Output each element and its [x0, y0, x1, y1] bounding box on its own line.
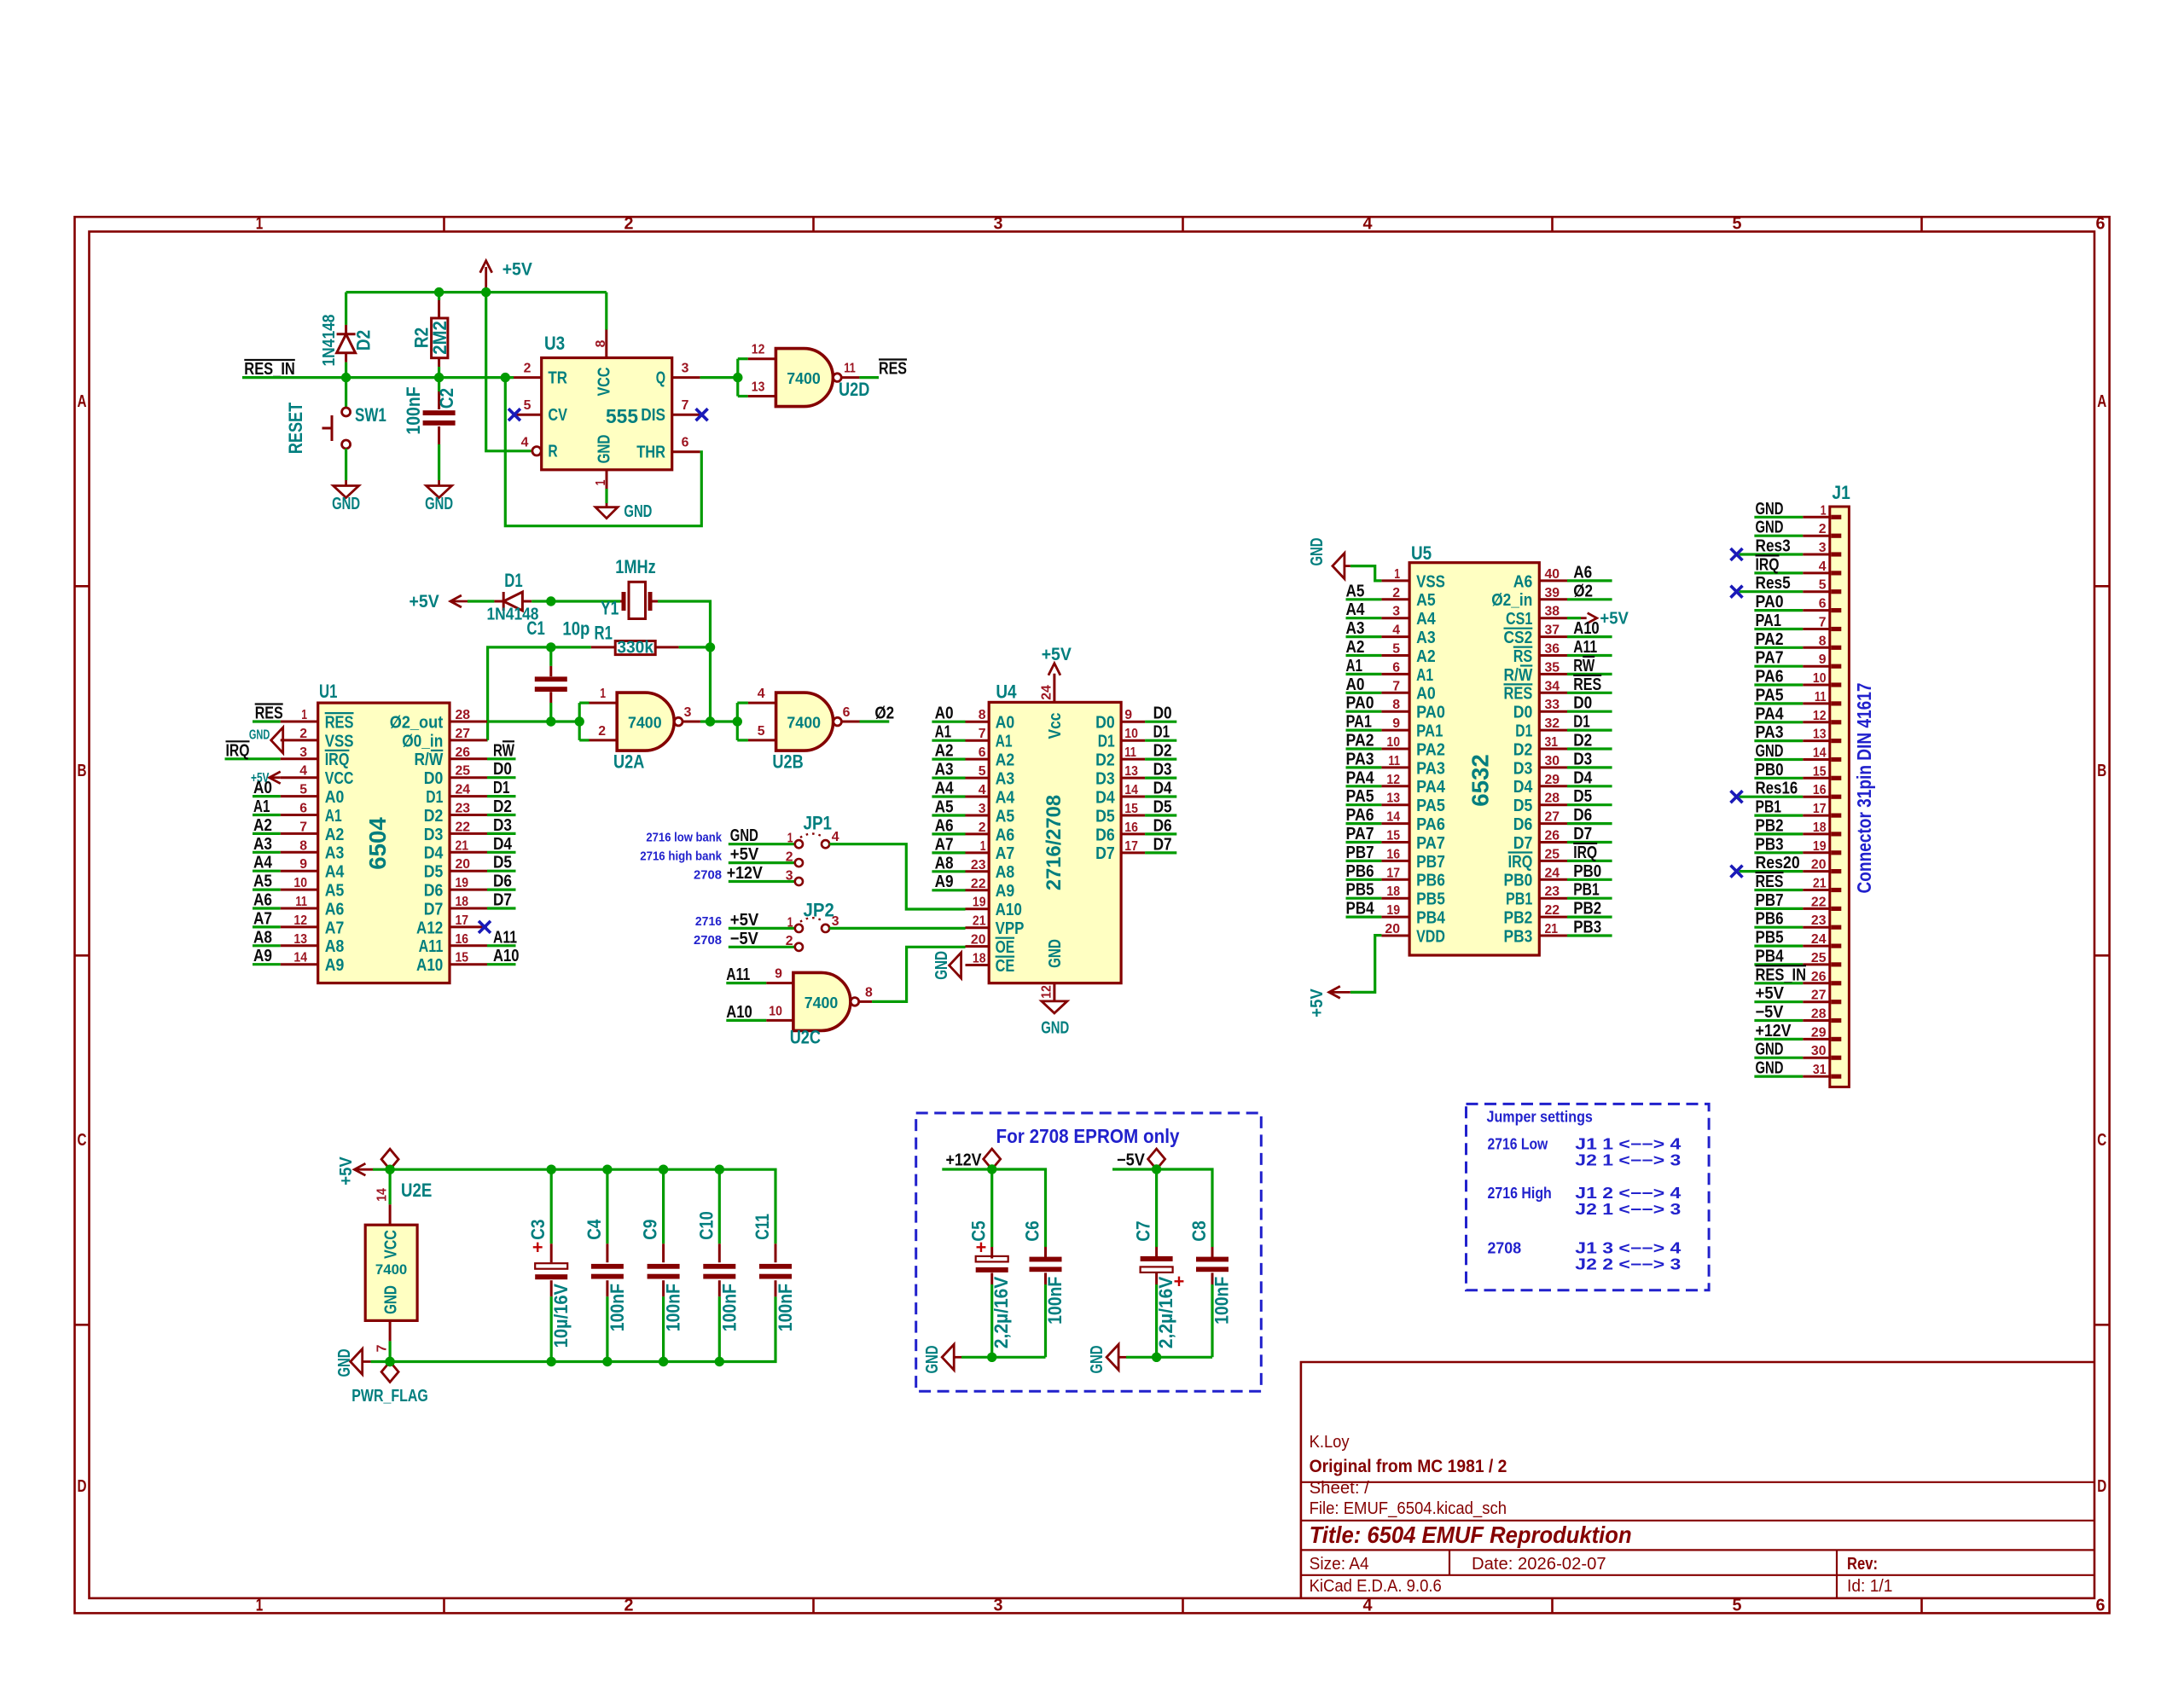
- U4 pin 23 A8: [966, 870, 990, 872]
- svg-text:PB5: PB5: [1416, 890, 1445, 909]
- wire J1 pin 23: [1754, 926, 1803, 929]
- svg-text:A3: A3: [325, 843, 345, 863]
- svg-text:14: 14: [293, 951, 307, 965]
- svg-text:A8: A8: [253, 928, 272, 947]
- svg-text:A5: A5: [325, 881, 345, 901]
- U5 pin 4 A3: [1381, 635, 1409, 638]
- svg-text:22: 22: [1811, 895, 1827, 909]
- svg-text:2716 low bank: 2716 low bank: [646, 831, 722, 845]
- svg-text:VSS: VSS: [1416, 571, 1445, 591]
- svg-text:25: 25: [456, 764, 471, 779]
- net label D3 wire (U5 right): [1567, 766, 1612, 768]
- svg-text:RES_IN: RES_IN: [244, 360, 295, 379]
- net label D7 wire (U4): [1145, 851, 1176, 854]
- svg-text:PA0: PA0: [1416, 703, 1445, 722]
- svg-text:A0: A0: [1416, 684, 1436, 704]
- svg-text:PB0: PB0: [1756, 761, 1784, 780]
- svg-text:7400: 7400: [628, 715, 662, 732]
- svg-text:28: 28: [1811, 1007, 1827, 1022]
- svg-text:6: 6: [1819, 597, 1827, 612]
- svg-text:Vcc: Vcc: [1045, 713, 1065, 739]
- no-connect X: [1731, 866, 1743, 878]
- svg-text:330k: 330k: [617, 638, 653, 657]
- U3 pin 8 VCC: [605, 293, 607, 330]
- svg-text:12: 12: [1386, 773, 1400, 787]
- svg-text:11: 11: [844, 362, 856, 376]
- svg-text:5: 5: [1819, 578, 1827, 593]
- svg-text:GND: GND: [249, 728, 270, 743]
- svg-text:RES: RES: [879, 360, 907, 379]
- svg-text:PA2: PA2: [1346, 732, 1374, 751]
- crystal Y1 1MHz: [620, 600, 622, 603]
- title block vertical divider rev: [1836, 1550, 1838, 1598]
- net label IRQ wire (U5 right): [1567, 860, 1612, 862]
- svg-text:A11: A11: [419, 936, 444, 956]
- svg-text:Title: 6504 EMUF Reproduktion: Title: 6504 EMUF Reproduktion: [1310, 1522, 1632, 1548]
- capacitor C2 100nF: [438, 378, 440, 391]
- JP2 pin 3: [822, 925, 829, 932]
- wire J1 pin 20: [1740, 870, 1804, 872]
- svg-text:5: 5: [299, 783, 307, 797]
- svg-text:1: 1: [256, 215, 264, 234]
- U5 pin 39 Ø2_in: [1539, 598, 1567, 600]
- svg-text:Id: 1/1: Id: 1/1: [1847, 1577, 1892, 1596]
- svg-text:C8: C8: [1188, 1220, 1210, 1241]
- svg-text:2: 2: [524, 362, 531, 376]
- svg-text:20: 20: [1385, 922, 1400, 936]
- svg-text:2: 2: [624, 215, 634, 234]
- U4 pin 1 A7: [966, 851, 990, 854]
- power GND at U1 pin 2: [271, 728, 283, 753]
- wire J1 pin 27: [1754, 1000, 1803, 1003]
- wire Y1 to right vertical: [658, 601, 711, 722]
- svg-text:GND: GND: [1041, 1019, 1069, 1038]
- svg-text:3: 3: [994, 1597, 1003, 1615]
- svg-text:A7: A7: [325, 918, 345, 937]
- svg-text:A2: A2: [996, 751, 1015, 770]
- net label A7 wire (U4): [932, 851, 965, 854]
- svg-text:GND: GND: [335, 1349, 354, 1377]
- junction: [987, 1164, 996, 1174]
- svg-text:13: 13: [293, 932, 307, 947]
- connector J1 body: [1830, 507, 1850, 1087]
- svg-text:13: 13: [1124, 764, 1138, 779]
- U5 pin 15 PA7: [1381, 841, 1409, 843]
- svg-text:−5V: −5V: [1117, 1151, 1146, 1170]
- svg-text:2,2µ/16V: 2,2µ/16V: [990, 1276, 1012, 1348]
- svg-text:VCC: VCC: [325, 768, 354, 788]
- svg-text:D3: D3: [1095, 769, 1115, 789]
- svg-text:4: 4: [1363, 1597, 1374, 1615]
- svg-text:A11: A11: [1573, 638, 1597, 657]
- U5 pin 29 D4: [1539, 785, 1567, 787]
- U5 pin 6 A1: [1381, 673, 1409, 675]
- J1 pin 5 Res5: [1803, 590, 1830, 593]
- net label A6 wire (U4): [932, 832, 965, 835]
- svg-text:PB7: PB7: [1756, 891, 1784, 910]
- net label PB2 wire (U5 right): [1567, 915, 1612, 918]
- svg-text:4: 4: [1392, 623, 1400, 638]
- svg-text:A5: A5: [1346, 582, 1365, 600]
- U5 pin 33 D0: [1539, 710, 1567, 713]
- net label PA4 wire (U5 left): [1346, 785, 1382, 787]
- svg-text:28: 28: [1545, 791, 1560, 806]
- wire GND rail: [371, 1296, 775, 1361]
- svg-text:2716: 2716: [695, 914, 722, 929]
- svg-text:D5: D5: [1153, 798, 1172, 817]
- wire JP2 pin3 to U4 VPP: [829, 927, 965, 930]
- svg-text:DIS: DIS: [641, 405, 665, 425]
- svg-text:12: 12: [1040, 985, 1054, 999]
- svg-text:32: 32: [1545, 716, 1560, 731]
- svg-text:D4: D4: [1095, 787, 1115, 807]
- svg-text:PB4: PB4: [1416, 908, 1445, 928]
- resistor R2: [438, 293, 440, 300]
- U2D output pin 11 wire: [841, 376, 859, 379]
- net label D5 wire (U5 right): [1567, 803, 1612, 806]
- svg-text:GND: GND: [1308, 538, 1327, 566]
- svg-text:Ø2_out: Ø2_out: [390, 712, 444, 732]
- svg-text:U2D: U2D: [839, 379, 869, 400]
- net label PB0 wire (U5 right): [1567, 878, 1612, 881]
- svg-text:IRQ: IRQ: [1573, 843, 1597, 862]
- net label A3 wire (U1): [253, 851, 281, 854]
- U1 pin 9 A4: [281, 870, 318, 872]
- svg-text:GND: GND: [1756, 500, 1784, 519]
- wire J1 pin 16: [1740, 796, 1804, 798]
- svg-text:A10: A10: [493, 947, 520, 965]
- U2B output pin 6 wire: [841, 721, 859, 723]
- svg-text:A11: A11: [726, 965, 750, 984]
- svg-text:20: 20: [456, 857, 471, 872]
- svg-text:D5: D5: [1095, 806, 1115, 826]
- svg-text:+5V: +5V: [337, 1157, 356, 1186]
- svg-text:CV: CV: [548, 405, 567, 425]
- svg-text:D1: D1: [426, 787, 443, 807]
- svg-text:GND: GND: [730, 826, 758, 845]
- U1 pin 20 D5: [450, 870, 487, 872]
- svg-text:PB1: PB1: [1573, 881, 1600, 900]
- svg-text:Ø2_in: Ø2_in: [1491, 590, 1532, 610]
- svg-text:1: 1: [600, 687, 606, 701]
- capacitor C6 100nF: [1044, 1247, 1047, 1259]
- svg-text:D7: D7: [1513, 833, 1533, 853]
- junction: [733, 716, 742, 726]
- svg-text:6: 6: [299, 802, 307, 816]
- svg-text:A6: A6: [253, 891, 272, 910]
- svg-text:7400: 7400: [787, 370, 821, 387]
- svg-text:A4: A4: [253, 854, 273, 872]
- U5 pin 36 RS: [1539, 654, 1567, 657]
- net label A4 wire (U1): [253, 870, 281, 872]
- svg-text:2: 2: [598, 724, 606, 739]
- svg-text:37: 37: [1545, 623, 1560, 638]
- svg-text:6504: 6504: [364, 817, 391, 870]
- svg-text:100nF: 100nF: [403, 386, 424, 434]
- eprom U4 2716/2708 body: [989, 702, 1121, 983]
- svg-text:100nF: 100nF: [718, 1284, 740, 1331]
- net label D4 wire (U4): [1145, 795, 1176, 797]
- wire J1 pin 19: [1754, 851, 1803, 854]
- svg-text:A6: A6: [1513, 571, 1533, 591]
- svg-text:3: 3: [994, 215, 1003, 234]
- net label PB6 wire (U5 left): [1346, 878, 1382, 881]
- svg-text:PB1: PB1: [1506, 890, 1532, 909]
- svg-text:2716/2708: 2716/2708: [1043, 795, 1066, 890]
- svg-text:A0: A0: [935, 704, 954, 723]
- svg-text:GND: GND: [332, 495, 360, 513]
- U2E pin 7 GND: [389, 1320, 392, 1341]
- wire U2B input bracket: [736, 703, 739, 740]
- net label PB3 wire (U5 right): [1567, 934, 1612, 936]
- junction: [733, 373, 742, 382]
- net label D1 (U1 right): [487, 795, 516, 797]
- junction: [706, 716, 715, 726]
- svg-text:GND: GND: [932, 951, 951, 980]
- wire J1 pin 10: [1754, 683, 1803, 686]
- svg-text:J2 1 <−−> 3: J2 1 <−−> 3: [1575, 1201, 1681, 1218]
- capacitor C11 100nF: [775, 1244, 777, 1262]
- junction: [341, 373, 351, 382]
- svg-text:36: 36: [1545, 642, 1560, 657]
- svg-text:A9: A9: [935, 872, 954, 891]
- svg-text:A5: A5: [935, 798, 954, 817]
- junction: [547, 1357, 556, 1366]
- svg-text:100nF: 100nF: [607, 1284, 628, 1331]
- svg-text:12: 12: [293, 913, 307, 928]
- svg-text:6532: 6532: [1467, 754, 1494, 807]
- svg-text:2: 2: [1392, 586, 1400, 600]
- U5 pin 21 PB3: [1539, 935, 1567, 937]
- svg-text:+5V: +5V: [730, 911, 759, 930]
- svg-text:C7: C7: [1133, 1220, 1154, 1241]
- svg-text:A: A: [2097, 392, 2106, 411]
- net label PA2 wire (U5 left): [1346, 747, 1382, 750]
- svg-text:25: 25: [1811, 951, 1827, 965]
- svg-text:10: 10: [293, 876, 307, 890]
- net label A8 wire (U1): [253, 944, 281, 947]
- net label A0 wire (U4): [932, 721, 965, 723]
- svg-text:RES: RES: [1573, 675, 1601, 694]
- net label D2 wire (U5 right): [1567, 747, 1612, 750]
- svg-text:9: 9: [775, 967, 782, 982]
- wire J1 pin 8: [1754, 646, 1803, 649]
- capacitor C10 100nF: [718, 1169, 721, 1244]
- U4 pin 17 D7: [1121, 851, 1145, 854]
- wire JP1 pin4 to U4 A10: [829, 844, 965, 909]
- U5 pin 14 PA6: [1381, 822, 1409, 825]
- title block divider: [1301, 1520, 2094, 1522]
- wire J1 pin 11: [1754, 702, 1803, 704]
- svg-text:GND: GND: [1756, 519, 1784, 537]
- svg-text:PA7: PA7: [1756, 649, 1784, 668]
- gate U2E 7400 power unit body: [365, 1225, 417, 1320]
- U5 pin 35 R/W: [1539, 673, 1567, 675]
- svg-text:A: A: [78, 392, 87, 411]
- svg-text:A4: A4: [1346, 600, 1366, 619]
- JP1 pin 3 +12V row: [729, 880, 795, 883]
- svg-text:RESET: RESET: [285, 402, 306, 454]
- svg-text:PB6: PB6: [1756, 910, 1784, 929]
- wire J1 pin 7: [1754, 628, 1803, 630]
- svg-text:11: 11: [1124, 745, 1136, 760]
- svg-text:6: 6: [2096, 1597, 2106, 1615]
- svg-text:A3: A3: [253, 835, 272, 854]
- svg-text:3: 3: [1819, 541, 1827, 555]
- U3 pin 2 TR: [514, 376, 542, 379]
- net label A1 wire (U5 left): [1346, 673, 1382, 675]
- U1 pin 8 A3: [281, 851, 318, 854]
- J1 pin 10 PA6: [1803, 684, 1830, 687]
- svg-text:PA5: PA5: [1346, 787, 1374, 806]
- svg-text:1: 1: [301, 708, 307, 722]
- svg-text:6: 6: [1392, 660, 1400, 675]
- wire phi0_in net: pin27 up to R1 row: [488, 647, 591, 740]
- svg-text:9: 9: [1124, 708, 1132, 722]
- svg-text:24: 24: [1040, 685, 1054, 700]
- svg-text:Q: Q: [656, 368, 665, 388]
- net label A0 wire (U1): [253, 795, 281, 797]
- nand gate U2A 7400: [590, 702, 618, 704]
- svg-text:D7: D7: [1095, 843, 1115, 863]
- power +5V symbol (reset): [485, 267, 487, 293]
- svg-text:Original from MC 1981 / 2: Original from MC 1981 / 2: [1310, 1457, 1507, 1476]
- ground GND (U4 pin 12): [1042, 1001, 1067, 1013]
- wire J1 pin 14: [1754, 758, 1803, 761]
- svg-text:16: 16: [1386, 847, 1400, 861]
- svg-text:A9: A9: [253, 947, 272, 965]
- U5 pin 37 CS2: [1539, 635, 1567, 638]
- svg-text:Jumper settings: Jumper settings: [1487, 1109, 1593, 1126]
- svg-text:4: 4: [832, 830, 839, 844]
- svg-text:A3: A3: [996, 769, 1015, 789]
- net label D5 (U1 right): [487, 870, 516, 872]
- svg-text:D2: D2: [353, 330, 375, 351]
- J1 pin 19 PB3: [1803, 851, 1830, 854]
- U5 pin 40 A6: [1539, 579, 1567, 582]
- svg-text:13: 13: [1813, 728, 1827, 742]
- junction: [547, 1165, 556, 1174]
- svg-text:10: 10: [1813, 671, 1827, 686]
- net label A11 (U2C): [726, 982, 766, 984]
- title block divider: [1301, 1574, 2094, 1576]
- U1 pin 21 D4: [450, 851, 487, 854]
- U5 pin 5 A2: [1381, 654, 1409, 657]
- svg-text:U3: U3: [544, 333, 565, 354]
- wire J1 pin 3: [1740, 553, 1804, 555]
- svg-text:U2B: U2B: [772, 751, 803, 773]
- junction: [385, 1357, 394, 1366]
- svg-text:D0: D0: [1513, 703, 1533, 722]
- net label A9 wire (U1): [253, 963, 281, 965]
- svg-text:+5V: +5V: [502, 260, 532, 280]
- svg-text:6: 6: [979, 745, 986, 760]
- svg-text:PA2: PA2: [1416, 739, 1445, 759]
- svg-text:27: 27: [456, 727, 471, 741]
- svg-text:J1 1 <−−> 4: J1 1 <−−> 4: [1575, 1135, 1681, 1152]
- svg-text:14: 14: [375, 1188, 390, 1202]
- svg-text:A1: A1: [253, 797, 270, 816]
- svg-text:30: 30: [1811, 1044, 1827, 1058]
- svg-text:VDD: VDD: [1416, 926, 1445, 946]
- svg-text:PB2: PB2: [1756, 816, 1784, 835]
- svg-text:−5V: −5V: [730, 930, 759, 948]
- svg-text:Ø2: Ø2: [1573, 582, 1593, 600]
- svg-text:C11: C11: [752, 1214, 773, 1240]
- svg-text:D2: D2: [1153, 742, 1172, 761]
- J1 pin 16 Res16: [1803, 796, 1830, 798]
- svg-text:CS1: CS1: [1506, 609, 1532, 629]
- U5 pin 23 PB1: [1539, 897, 1567, 900]
- net label A10 (U1): [487, 963, 516, 965]
- U1 pin 25 D0: [450, 776, 487, 779]
- sheet frame outer border: [75, 217, 2110, 1613]
- J1 pin 11 PA5: [1803, 702, 1830, 704]
- svg-text:11: 11: [295, 895, 307, 909]
- svg-text:A3: A3: [1346, 619, 1365, 638]
- svg-text:8: 8: [979, 708, 986, 722]
- svg-text:A7: A7: [253, 909, 272, 928]
- svg-text:THR: THR: [636, 443, 665, 462]
- svg-text:PA3: PA3: [1346, 750, 1374, 768]
- wire 555 TR loop to THR: [505, 378, 701, 526]
- svg-text:15: 15: [1386, 829, 1400, 843]
- svg-text:A10: A10: [1573, 619, 1600, 638]
- svg-text:U5: U5: [1411, 542, 1432, 564]
- svg-text:15: 15: [456, 951, 469, 965]
- U5 pin 10 PA2: [1381, 748, 1409, 751]
- junction: [602, 1165, 612, 1174]
- svg-text:VSS: VSS: [325, 731, 354, 751]
- capacitor C1 10p: [549, 647, 552, 666]
- svg-text:D0: D0: [493, 760, 512, 779]
- J1 pin 30 GND: [1803, 1057, 1830, 1059]
- JP1 jumper arc: [800, 834, 824, 838]
- svg-text:5: 5: [1392, 642, 1400, 657]
- svg-text:4: 4: [1363, 215, 1374, 234]
- net label A2 wire (U1): [253, 832, 281, 835]
- net label D0 (U1 right): [487, 776, 516, 779]
- svg-text:D1: D1: [1573, 713, 1590, 732]
- wire J1 pin 2: [1754, 535, 1803, 537]
- svg-text:D2: D2: [1513, 739, 1533, 759]
- net label D7 wire (U5 right): [1567, 841, 1612, 843]
- net label PA7 wire (U5 left): [1346, 841, 1382, 843]
- U5 pin 3 A4: [1381, 617, 1409, 619]
- wire J1 pin 9: [1754, 665, 1803, 668]
- net label A3 wire (U4): [932, 776, 965, 779]
- U4 pin 14 D4: [1121, 796, 1145, 798]
- wire Q output to U2D: [700, 376, 738, 379]
- U4 pin 16 D6: [1121, 832, 1145, 835]
- net label A5 wire (U4): [932, 814, 965, 816]
- junction: [715, 1357, 724, 1366]
- svg-text:PB7: PB7: [1346, 843, 1374, 862]
- U4 pin 2 A6: [966, 832, 990, 835]
- svg-text:10: 10: [769, 1004, 782, 1018]
- JP2 pin 1 +5V row: [729, 927, 795, 930]
- svg-text:A7: A7: [935, 835, 954, 854]
- svg-text:C4: C4: [584, 1219, 605, 1240]
- svg-text:22: 22: [1545, 903, 1560, 918]
- svg-text:B: B: [2097, 762, 2106, 780]
- svg-text:PA7: PA7: [1346, 825, 1374, 843]
- svg-text:PB0: PB0: [1504, 871, 1533, 890]
- JP1 pin 4: [822, 840, 829, 848]
- power GND at U5 pin 1 VSS: [1350, 566, 1382, 581]
- U1 pin 15 A10: [450, 963, 487, 965]
- ground GND (C2): [427, 486, 452, 498]
